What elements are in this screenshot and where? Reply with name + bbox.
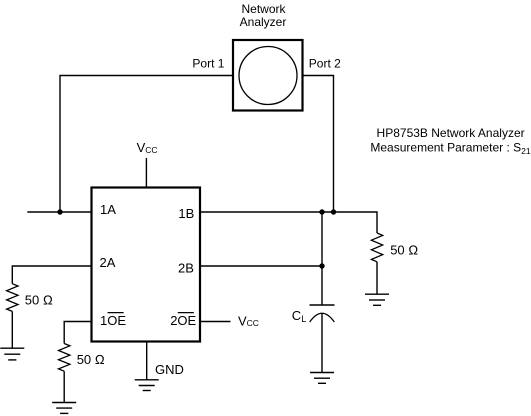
svg-text:GND: GND (155, 362, 184, 377)
svg-text:1A: 1A (100, 202, 116, 217)
svg-text:2A: 2A (100, 255, 116, 270)
svg-text:Measurement Parameter : S21: Measurement Parameter : S21 (370, 141, 530, 156)
svg-text:2OE: 2OE (170, 313, 196, 328)
svg-text:Network: Network (241, 2, 286, 16)
svg-text:2B: 2B (178, 260, 194, 275)
svg-text:Port 1: Port 1 (192, 56, 224, 70)
svg-text:50 Ω: 50 Ω (77, 352, 105, 367)
svg-text:HP8753B Network Analyzer: HP8753B Network Analyzer (377, 126, 525, 140)
svg-text:50 Ω: 50 Ω (390, 243, 418, 258)
svg-text:Analyzer: Analyzer (240, 15, 287, 29)
svg-text:1B: 1B (178, 206, 194, 221)
svg-text:50 Ω: 50 Ω (25, 292, 53, 307)
svg-text:1OE: 1OE (100, 313, 126, 328)
svg-text:Port 2: Port 2 (309, 56, 341, 70)
